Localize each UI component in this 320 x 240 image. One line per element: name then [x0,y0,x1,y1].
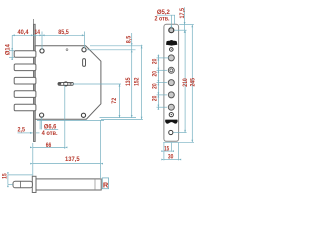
deadbolt pin 1 [14,51,36,58]
extension: hole1 [41,32,43,50]
body fixing hole top-right [82,48,86,52]
210 dim line [184,30,186,132]
lock body outline with chamfered right corners [35,46,101,119]
faceplate edge-on strip [34,24,36,141]
extension: plate front [33,19,35,35]
ext body top to 4,5 [90,45,143,47]
ext hole9 [174,132,187,134]
plate hole 4 (double ring) [168,67,174,73]
svg-text:30: 30 [168,154,174,161]
svg-text:20: 20 [151,83,158,89]
ext keyhole level [73,83,121,85]
small pivot dot [66,49,68,51]
17,5 dim line [184,7,186,30]
body fixing hole bottom-right [81,113,85,117]
keyhole silhouette upper [166,40,177,46]
svg-text:40,4: 40,4 [18,29,29,36]
body fixing hole top-left [40,49,44,53]
svg-text:8,5: 8,5 [125,36,132,44]
body side [36,179,101,190]
small slot near top [83,59,86,67]
ext bottom y=119.4 (body bottom extended) [101,118,143,120]
R label bottom right of side view [102,178,108,189]
svg-text:20: 20 [151,71,158,77]
svg-text:72: 72 [111,98,118,104]
keyhole in body [58,82,73,86]
svg-text:245: 245 [189,78,196,87]
svg-text:152: 152 [134,77,141,86]
svg-text:66: 66 [46,142,52,149]
ext hole2 level [87,49,136,51]
side view inner line [94,179,96,190]
svg-text:15: 15 [164,146,169,153]
ext plate top [179,24,194,26]
plate small hole 8 [169,113,173,117]
deadbolt pin 2 [14,64,36,71]
svg-text:2,5: 2,5 [18,126,26,133]
dimension arrowheads [7,22,193,187]
ext bottom y=117.6 [100,117,137,119]
plate hole 9 [169,130,173,134]
ext body right down to side view [99,120,101,178]
svg-text:R: R [103,180,109,189]
deadbolt pin 5 [14,104,36,111]
bolt pin side [13,181,32,188]
svg-text:4 отв.: 4 отв. [42,130,58,137]
svg-text:85,5: 85,5 [58,29,69,36]
plate hole 6 [168,92,174,98]
152 dim line [141,45,143,120]
body fixing hole bottom-left [40,113,44,117]
72 dim line [119,84,121,118]
svg-text:2 отв.: 2 отв. [155,16,170,23]
svg-text:20: 20 [151,95,158,101]
deadbolt pin 4 [14,91,36,98]
svg-text:137,5: 137,5 [65,156,80,163]
svg-text:20: 20 [151,58,158,64]
extension: hole2 [84,32,86,49]
svg-text:Ø14: Ø14 [5,44,12,55]
ext plate bottom long [163,141,194,143]
plate hole top (O5,2) [169,28,174,33]
plate small hole 2 [170,48,174,52]
keyhole silhouette lower [165,120,178,124]
ext hole1 [175,29,187,31]
plate hole 5 [168,80,174,86]
svg-text:135: 135 [125,77,132,86]
245 dim line [191,25,193,143]
plate hole 3 [168,55,174,61]
ext plate front down to side view [32,143,34,176]
deadbolt pin 3 [14,77,36,84]
svg-text:17,5: 17,5 [179,8,186,19]
plate edge-on [32,176,36,192]
4,5 + 135 dim line [131,33,133,118]
plate hole 7 [168,104,174,110]
svg-text:15: 15 [2,173,9,179]
svg-text:210: 210 [182,78,189,87]
top dim line [12,34,84,36]
